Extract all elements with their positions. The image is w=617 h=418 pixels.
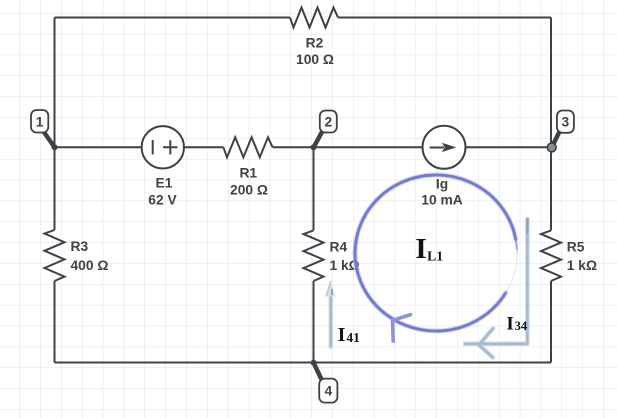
svg-text:62 V: 62 V bbox=[148, 192, 177, 207]
wire: node 2 to R4 bbox=[313, 147, 315, 230]
svg-text:R5: R5 bbox=[567, 240, 585, 255]
wire: R5 to bottom-right corner bbox=[550, 281, 552, 363]
svg-text:4: 4 bbox=[324, 384, 332, 399]
current arrow I41 (pointing up) bbox=[326, 281, 336, 348]
loop current annotation IL1 (hand-drawn circle, clockwise arrow) bbox=[355, 175, 517, 341]
wire: top side right of R2 bbox=[338, 17, 551, 19]
svg-text:10 mA: 10 mA bbox=[421, 193, 462, 208]
wire: R4 to node 4 bbox=[313, 281, 315, 363]
wire: top side left of R2 bbox=[55, 17, 291, 19]
svg-text:100 Ω: 100 Ω bbox=[296, 52, 334, 67]
wire: E1 to R1 bbox=[184, 146, 223, 148]
wire: node 2 to Ig bbox=[314, 146, 423, 148]
svg-text:200 Ω: 200 Ω bbox=[230, 183, 268, 198]
wire: bottom side bbox=[55, 362, 552, 364]
svg-text:E1: E1 bbox=[156, 176, 173, 191]
wire: right branch top (top-right corner to node 3) bbox=[550, 18, 552, 148]
wire: node 3 to R5 bbox=[550, 147, 552, 230]
svg-text:400 Ω: 400 Ω bbox=[71, 258, 109, 273]
resistor R2 bbox=[290, 8, 338, 28]
node 4 bbox=[311, 360, 338, 403]
resistor R4 bbox=[304, 230, 324, 281]
svg-text:R3: R3 bbox=[71, 239, 89, 254]
resistor R3 bbox=[45, 230, 65, 281]
wire: Ig to node 3 bbox=[466, 146, 552, 148]
wire: R1 to node 2 bbox=[273, 146, 314, 148]
wire: node 1 to E1 bbox=[55, 146, 143, 148]
wire: R3 to bottom-left corner bbox=[54, 281, 56, 363]
svg-text:R2: R2 bbox=[306, 36, 324, 51]
svg-text:1: 1 bbox=[36, 114, 44, 129]
current arrow I34 (down then left) bbox=[465, 219, 527, 358]
current source Ig bbox=[423, 126, 466, 169]
node 1 bbox=[31, 110, 58, 150]
resistor R5 bbox=[541, 230, 561, 281]
wire: node 1 to R3 bbox=[54, 147, 56, 230]
node 2 bbox=[311, 111, 337, 151]
node 3 bbox=[547, 111, 574, 152]
svg-text:3: 3 bbox=[562, 115, 570, 130]
svg-text:R4: R4 bbox=[330, 240, 348, 255]
voltage source E1 bbox=[142, 126, 184, 168]
svg-text:1 kΩ: 1 kΩ bbox=[567, 258, 597, 273]
svg-text:2: 2 bbox=[324, 115, 332, 130]
svg-text:Ig: Ig bbox=[436, 176, 448, 191]
resistor R1 bbox=[223, 137, 272, 157]
wire: left branch top (node 1 up to top-left corner) bbox=[54, 18, 56, 148]
svg-text:R1: R1 bbox=[239, 166, 257, 181]
